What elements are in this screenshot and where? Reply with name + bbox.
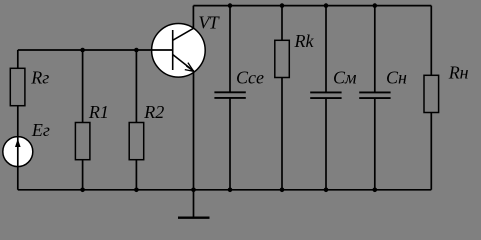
svg-text:Cм: Cм	[333, 68, 357, 88]
svg-text:Eг: Eг	[31, 120, 50, 140]
svg-text:R1: R1	[88, 102, 109, 122]
svg-text:VT: VT	[198, 13, 220, 33]
svg-text:Rг: Rг	[30, 68, 49, 88]
svg-text:Cce: Cce	[236, 68, 264, 88]
svg-text:R2: R2	[143, 102, 164, 122]
svg-text:Rн: Rн	[448, 62, 469, 82]
svg-text:Cн: Cн	[386, 68, 407, 88]
svg-text:Rk: Rk	[294, 31, 315, 51]
